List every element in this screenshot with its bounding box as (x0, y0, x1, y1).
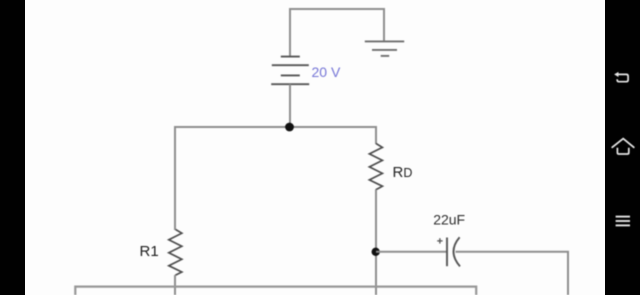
wire RD bottom lead through node B to box (375, 190, 377, 295)
resistor R1 (169, 230, 182, 276)
polarity plus mark (437, 238, 442, 243)
capacitor 22uF (447, 237, 460, 266)
wire node B to capacitor plus plate (376, 251, 447, 253)
left status bar (black) (0, 0, 25, 295)
box of cut-off component at bottom (75, 287, 476, 295)
wire battery bottom to node A (289, 84, 291, 127)
wire battery positive top to ground (top loop) (290, 9, 384, 57)
nav menu icon (616, 217, 630, 226)
wire capacitor right then down (456, 252, 569, 295)
node B junction dot (372, 248, 380, 256)
node A junction dot (285, 123, 294, 132)
battery 20V (271, 57, 309, 85)
wire RD top lead (375, 126, 377, 144)
nav back icon (614, 72, 628, 82)
wire R1 bottom lead (174, 275, 176, 295)
wire R1 top lead (174, 126, 176, 230)
right navigation bar (black) (605, 0, 640, 295)
ground (365, 41, 404, 56)
nav home icon (612, 139, 634, 154)
resistor RD (369, 144, 382, 190)
wire mid horizontal bus (174, 126, 377, 128)
